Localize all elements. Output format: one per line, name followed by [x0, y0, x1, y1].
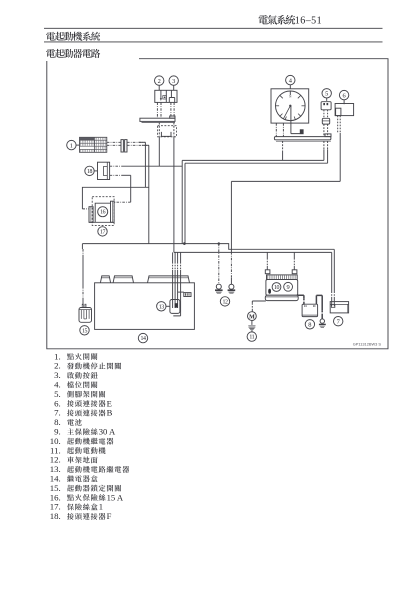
ignition switch wire 2: [107, 144, 121, 146]
leader from circle 6: [343, 100, 345, 105]
svg-text:5: 5: [325, 90, 328, 97]
gear switch wire b: [282, 123, 284, 137]
subsection heading 電起動器電路: [46, 49, 100, 58]
svg-text:15: 15: [82, 328, 88, 334]
starter relay terminal blob: [268, 289, 271, 294]
svg-text:12: 12: [222, 299, 228, 305]
lockout switch housing: [79, 308, 92, 323]
wire from connector E: [338, 116, 341, 133]
bus H3: [231, 180, 340, 182]
bus Q: [174, 251, 332, 253]
connector F dashed outline: [158, 126, 177, 137]
svg-text:8: 8: [308, 321, 311, 328]
title underline: [44, 27, 383, 29]
fuse holder left rail: [89, 207, 93, 223]
svg-text:13: 13: [159, 304, 165, 310]
connector B body: [330, 302, 348, 313]
svg-text:9: 9: [286, 284, 289, 291]
ground wire 1: [218, 244, 220, 284]
comp7 riser P: [333, 249, 335, 291]
wire to lockout switch: [81, 244, 83, 249]
callout circle 5: [322, 89, 331, 98]
section heading 電起動機系統: [46, 32, 100, 41]
relay attach connector: [178, 291, 184, 293]
leader from circle 5: [326, 98, 328, 101]
svg-text:16–51: 16–51: [295, 16, 322, 27]
frame ground symbol 2: [229, 284, 234, 289]
callout circle 16: [98, 207, 108, 217]
wire through connector F left: [158, 123, 160, 137]
battery ground symbol: [320, 319, 324, 323]
ignition fuse 15A dashed outline: [92, 197, 114, 226]
riser H2 left: [184, 163, 186, 243]
riser connector-F right wire: [173, 137, 175, 253]
connector 18 housing: [98, 162, 110, 179]
svg-text:30 A: 30 A: [99, 427, 116, 437]
connector F inner bracket: [161, 132, 171, 137]
page title 電氣系統16-51: [259, 15, 296, 25]
bus P: [82, 244, 334, 250]
callout circle 7: [334, 317, 343, 326]
relay stub left: [266, 252, 268, 258]
callout circle 15: [80, 326, 89, 335]
relay box tab 1: [100, 276, 110, 283]
svg-text:18: 18: [87, 169, 93, 175]
starter relay body: [266, 280, 298, 296]
sidestand connector barrel: [322, 118, 329, 124]
svg-text:18.: 18.: [50, 511, 61, 521]
ignition switch wire 1: [107, 141, 121, 143]
svg-text:11: 11: [249, 335, 254, 341]
wire 4 hook: [180, 252, 182, 262]
frame ground symbol 1: [216, 284, 221, 289]
callout circle 14: [138, 333, 147, 342]
callout circle 2: [155, 76, 164, 85]
engine stop switch contact: [160, 90, 162, 99]
bus H1: [182, 159, 324, 161]
motor ground: [251, 321, 253, 325]
leader from circle 3: [173, 85, 175, 90]
starter motor M: [248, 312, 257, 321]
lockout switch prongs: [82, 304, 83, 307]
bar2 riser left: [282, 141, 284, 150]
wire connector F to 18 junction riser: [158, 137, 160, 166]
svg-text:F: F: [107, 511, 112, 521]
starter circuit relay housing: [170, 300, 180, 314]
wires into relay box: [172, 252, 174, 262]
riser A: [181, 160, 183, 243]
ignition switch body: [80, 137, 107, 152]
battery body: [302, 304, 318, 316]
sidestand wire pair down: [324, 124, 328, 137]
svg-text:16: 16: [100, 210, 106, 216]
battery negative wire: [316, 295, 322, 310]
leader from circle 18: [94, 170, 97, 172]
diagram border frame: [47, 59, 388, 349]
callout circle 6: [339, 90, 348, 99]
gear switch wire a: [275, 123, 277, 137]
svg-text:GP11312BW3 S: GP11312BW3 S: [353, 341, 382, 346]
ground wire 2: [230, 181, 232, 252]
svg-text:10: 10: [274, 285, 280, 291]
wire 18 top: [110, 165, 122, 167]
svg-text:15 A: 15 A: [107, 492, 124, 502]
connector strip upper end tab: [170, 116, 175, 118]
bus H2: [185, 162, 328, 164]
wire relay to motor: [252, 301, 265, 303]
svg-text:M: M: [249, 314, 255, 320]
sidestand switch symbol: [321, 102, 331, 110]
switch block 2/3 housing: [155, 90, 177, 102]
wire pair from starter button: [171, 102, 174, 118]
callout circle 11: [247, 332, 256, 341]
comp7 riser Q: [331, 252, 333, 291]
gear switch common wire: [291, 106, 300, 134]
callout circle 3: [169, 76, 178, 85]
svg-text:2: 2: [158, 78, 161, 85]
relay stub right: [293, 252, 295, 258]
callout circle 8: [305, 320, 314, 329]
callout circle 18: [85, 166, 94, 175]
callout circle 12: [220, 297, 229, 306]
callout circle 9: [284, 282, 293, 291]
connector strip lower end tab: [325, 134, 331, 137]
callout circle 10: [272, 283, 281, 292]
leader from circle 4: [289, 85, 291, 89]
wire riser 18 bottom to fuse: [130, 175, 132, 202]
callout circle 4: [286, 75, 295, 84]
wire 18 bottom: [110, 174, 122, 176]
starter relay flange: [265, 295, 298, 300]
svg-text:3: 3: [172, 78, 175, 85]
callout circle 13: [157, 302, 166, 311]
connector strip lower: [274, 137, 331, 140]
wire riser ignition 1: [144, 142, 146, 187]
svg-text:1: 1: [70, 142, 73, 149]
relay box body: [95, 283, 195, 330]
starter relay lid: [267, 275, 298, 280]
wire riser ignition 2: [148, 145, 150, 243]
gear position switch body: [271, 89, 309, 123]
leader from circle 1: [76, 144, 80, 146]
connector strip upper: [140, 118, 175, 121]
wire pair from stop switch: [157, 102, 161, 118]
relay tab left: [265, 270, 270, 274]
starter button contact: [170, 90, 172, 97]
callout circle 1: [67, 140, 76, 149]
bar2 riser pair right: [324, 141, 328, 149]
svg-text:B: B: [107, 408, 113, 418]
svg-text:17: 17: [100, 229, 106, 235]
svg-text:14: 14: [140, 336, 146, 342]
fuse holder frame: [89, 221, 114, 223]
relay box tab 3: [148, 276, 190, 283]
sidestand link dash: [324, 110, 328, 119]
wire ignition to fuse: [82, 187, 148, 209]
connector E body: [335, 104, 354, 116]
leader from circle 2: [158, 85, 160, 90]
svg-text:1: 1: [99, 502, 103, 512]
inline connector on ignition wires: [121, 140, 123, 152]
callout circle 17: [98, 227, 107, 236]
wire through connector F right: [173, 123, 175, 137]
relay box tab 2: [113, 276, 133, 283]
relay tab right: [292, 270, 297, 274]
fuse holder right rail: [111, 201, 115, 222]
section heading underline: [44, 41, 383, 43]
wire relay to battery: [298, 295, 304, 299]
leader from circle 13: [166, 305, 170, 307]
svg-text:6: 6: [342, 92, 345, 99]
